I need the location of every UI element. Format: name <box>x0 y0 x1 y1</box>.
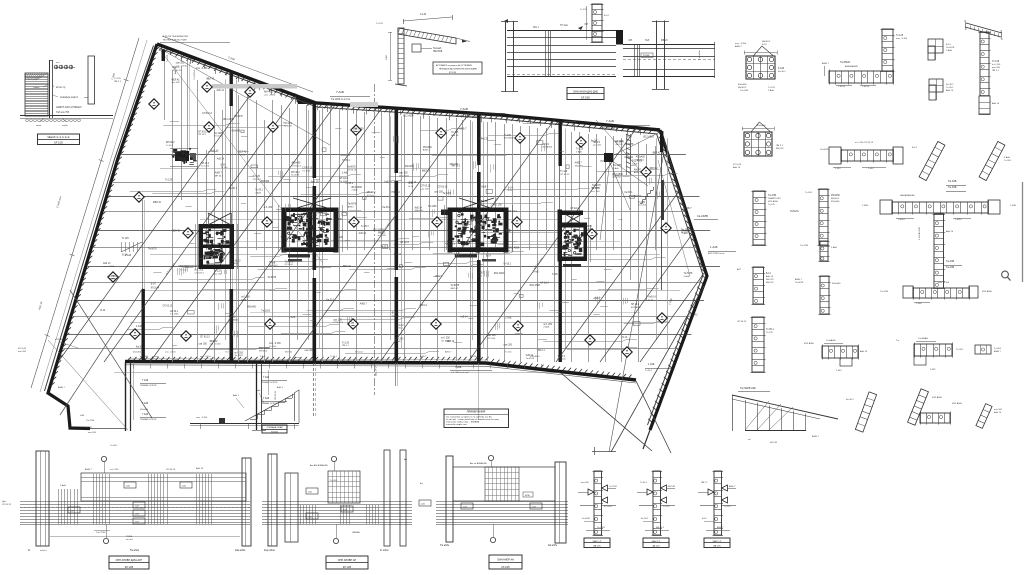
svg-text:Алимфлд освртл: Алимфлд освртл <box>60 96 79 99</box>
svg-text:СП 63.13: СП 63.13 <box>421 186 431 188</box>
svg-text:Кт жб/м: Кт жб/м <box>380 549 389 552</box>
svg-text:АхБ 14: АхБ 14 <box>766 275 774 278</box>
svg-text:1.4Х5: 1.4Х5 <box>930 369 936 371</box>
svg-text:Тм 6078: Тм 6078 <box>946 47 955 49</box>
svg-text:шаг 200: шаг 200 <box>615 141 624 143</box>
small bar R17 <box>820 241 828 261</box>
svg-text:Б-14: Б-14 <box>479 204 484 206</box>
corner detail B note box <box>433 62 482 74</box>
stair core 1 small <box>175 151 189 161</box>
svg-text:Тж 1205: Тж 1205 <box>339 181 348 183</box>
svg-text:Тж 1205: Тж 1205 <box>170 314 179 316</box>
svg-text:Б-14: Б-14 <box>221 164 227 166</box>
svg-text:361 1: 361 1 <box>533 27 539 29</box>
svg-text:Ø12 А500: Ø12 А500 <box>55 338 66 341</box>
svg-text:Тл 05.1: Тл 05.1 <box>269 346 277 348</box>
svg-text:Тл 05.1: Тл 05.1 <box>110 445 118 447</box>
svg-text:Тл 125: Тл 125 <box>280 238 288 240</box>
svg-text:7 АхБ: 7 АхБ <box>460 107 468 111</box>
svg-text:КЛ 2x14: КЛ 2x14 <box>151 288 160 290</box>
plan outline - bottom left closure <box>90 428 126 430</box>
svg-text:ЧВА ⑤-⑥: ЧВА ⑤-⑥ <box>713 540 722 543</box>
vertical grid lines <box>172 70 174 362</box>
svg-text:ТЕЖАНБ ОСЖТЕ: ТЕЖАНБ ОСЖТЕ <box>140 418 157 421</box>
beam detail BD1 right column <box>242 458 251 546</box>
beam detail C tall column <box>656 21 658 90</box>
beam detail BD2 title box <box>326 556 368 569</box>
svg-text:Тж АХБ: Тж АХБ <box>948 180 957 183</box>
svg-text:АхБ 14: АхБ 14 <box>103 262 111 265</box>
basement wall below plan x=126 <box>125 362 127 431</box>
svg-text:Тм 6078: Тм 6078 <box>450 285 459 287</box>
beam detail BD1 stirrups <box>58 489 60 524</box>
svg-text:жб/м××: жб/м×× <box>40 549 48 552</box>
beam detail BD1 circles <box>101 456 106 461</box>
svg-text:АУТОМАТЛ на умелте db-СУТЕЖ: АУТОМАТЛ на умелте db-СУТЕЖАТЕ <box>436 64 473 67</box>
svg-text:АхБ 14: АхБ 14 <box>211 150 219 153</box>
svg-text:1-05: 1-05 <box>135 513 140 515</box>
stair core 4 <box>448 208 453 253</box>
svg-text:Б-14: Б-14 <box>486 256 492 258</box>
svg-text:Б-14: Б-14 <box>508 188 514 190</box>
svg-text:АхБ 3: АхБ 3 <box>277 386 284 389</box>
svg-text:Б-14: Б-14 <box>604 15 609 17</box>
svg-text:АЖБ 7: АЖБ 7 <box>423 149 431 152</box>
svg-text:Тж 1205: Тж 1205 <box>800 245 809 247</box>
svg-text:Тлб ПЛЖ: Тлб ПЛЖ <box>96 532 105 534</box>
svg-text:ЛМ 2.1: ЛМ 2.1 <box>992 70 1000 72</box>
beam detail C left column <box>505 21 507 92</box>
svg-text:Б-14: Б-14 <box>766 273 772 275</box>
rebar bar detail R7 <box>752 317 764 372</box>
svg-text:ФБЛ 42: ФБЛ 42 <box>776 147 784 150</box>
svg-text:СП 63.13: СП 63.13 <box>438 186 448 188</box>
svg-text:МН 40.2: МН 40.2 <box>656 527 665 529</box>
svg-text:Тм 6078: Тм 6078 <box>684 273 693 275</box>
svg-text:1.4X3: 1.4X3 <box>868 168 874 170</box>
svg-text:Тж 1205: Тж 1205 <box>225 352 234 354</box>
beam detail BD2 circles <box>331 456 336 461</box>
svg-text:Тл 125: Тл 125 <box>766 332 774 334</box>
svg-text:ж.б. 200: ж.б. 200 <box>591 191 600 193</box>
svg-text:ЧВА ①-②: ЧВА ①-② <box>593 540 602 543</box>
svg-text:ФБЛ 42: ФБЛ 42 <box>653 152 662 155</box>
svg-text:Тл 125: Тл 125 <box>221 167 229 169</box>
rebar bar detail R5 <box>753 267 764 304</box>
basement wall 2 below plan x=258 <box>256 363 258 430</box>
svg-text:МН 40.2: МН 40.2 <box>470 356 479 358</box>
svg-text:Ø12 А500: Ø12 А500 <box>223 118 234 121</box>
svg-text:ОНН АНОВН АН: ОНН АНОВН АН <box>338 559 357 562</box>
svg-text:7 АхБ: 7 АхБ <box>142 379 149 382</box>
svg-text:КЛ 2x14: КЛ 2x14 <box>540 282 549 284</box>
svg-text:450x450: 450x450 <box>832 283 841 285</box>
svg-text:АА 1/25: АА 1/25 <box>652 545 660 548</box>
svg-text:Ø12 А500: Ø12 А500 <box>952 402 963 405</box>
svg-text:АЖБ 7: АЖБ 7 <box>241 298 249 301</box>
interior wall column x=662 <box>660 131 663 152</box>
svg-text:ж.б. 200: ж.б. 200 <box>992 64 1001 66</box>
svg-text:Ø12 А500: Ø12 А500 <box>932 396 943 399</box>
wall hatch ticks along top edge <box>159 47 162 50</box>
svg-text:Б-14: Б-14 <box>912 147 917 149</box>
svg-text:450x450: 450x450 <box>140 409 149 411</box>
svg-text:Тж ЖБАН: Тж ЖБАН <box>918 337 928 340</box>
svg-text:ФБЛ 42: ФБЛ 42 <box>422 170 431 173</box>
svg-text:Джл: Джл <box>2 501 7 503</box>
svg-text:450x450: 450x450 <box>423 147 433 149</box>
svg-text:шаг 200: шаг 200 <box>558 359 567 361</box>
column section D <box>746 56 775 79</box>
svg-text:Ø12 А500: Ø12 А500 <box>631 306 642 309</box>
svg-text:Ам АЖ АЖАНЖБ: Ам АЖ АЖАНЖБ <box>310 464 328 467</box>
svg-text:1.4ХБ: 1.4ХБ <box>916 303 922 305</box>
svg-text:КЛ 1/25: КЛ 1/25 <box>501 566 510 569</box>
svg-text:МН 40.2: МН 40.2 <box>831 198 840 200</box>
svg-text:Б-14: Б-14 <box>101 310 107 312</box>
svg-text:Тж 1205: Тж 1205 <box>310 212 319 214</box>
centreline dash-dot x=374 <box>374 84 376 395</box>
svg-text:ПЛ 14.2: ПЛ 14.2 <box>631 304 640 306</box>
svg-text:ФБЛ 42: ФБЛ 42 <box>668 485 676 488</box>
beam detail BD3 title box <box>489 555 522 569</box>
svg-text:ТЕЖАНБ ОСЖТЕ: ТЕЖАНБ ОСЖТЕ <box>140 384 157 387</box>
svg-text:Тж жб/м: Тж жб/м <box>440 544 449 547</box>
svg-text:МН 40.2: МН 40.2 <box>367 192 376 194</box>
quad section R9 <box>928 39 943 53</box>
svg-text:АЖБ 7: АЖБ 7 <box>420 355 427 358</box>
svg-text:Б-14: Б-14 <box>477 275 482 277</box>
svg-text:АхБ 14: АхБ 14 <box>217 89 225 92</box>
svg-text:2 АхБ: 2 АхБ <box>337 236 344 239</box>
svg-text:Тл 05.1: Тл 05.1 <box>956 349 964 351</box>
svg-text:отм. -3.150: отм. -3.150 <box>264 94 276 96</box>
svg-text:отм. -3.150: отм. -3.150 <box>103 266 115 268</box>
svg-text:ПЛ 14.2: ПЛ 14.2 <box>601 161 610 163</box>
interior wall column x=479 <box>477 115 481 165</box>
svg-text:ахб/м: ахб/м <box>62 125 68 127</box>
svg-text:2 АхБ: 2 АхБ <box>1004 156 1010 159</box>
interior wall column x=143 lower <box>142 289 145 362</box>
svg-text:Кж 30.1: Кж 30.1 <box>846 399 854 401</box>
svg-text:Кшр жб/м: Кшр жб/м <box>264 549 275 552</box>
svg-text:Тл 05.1: Тл 05.1 <box>342 160 350 162</box>
svg-text:Тл 125: Тл 125 <box>768 87 776 89</box>
svg-text:Тж ОЖЛБ АХЕ: Тж ОЖЛБ АХЕ <box>740 387 756 390</box>
svg-text:шаг 200: шаг 200 <box>305 350 314 352</box>
beam detail C stirrup ticks x=546 <box>545 30 547 76</box>
svg-text:2 АхБ: 2 АхБ <box>289 316 296 319</box>
svg-text:Тл 125: Тл 125 <box>768 204 776 206</box>
svg-text:ЛМ 2.1: ЛМ 2.1 <box>538 350 546 352</box>
svg-text:АЖБ 7: АЖБ 7 <box>685 207 693 210</box>
svg-text:Кж 30.1: Кж 30.1 <box>395 328 403 330</box>
stair steps core2 <box>121 242 123 252</box>
svg-text:Кж 30.1: Кж 30.1 <box>778 71 786 73</box>
svg-text:Б-14: Б-14 <box>946 44 951 46</box>
svg-text:шаг 200: шаг 200 <box>217 243 226 245</box>
wall section A base <box>20 115 113 117</box>
svg-text:Тл 125: Тл 125 <box>451 132 459 134</box>
svg-text:ПЕЖБАТЖ АЬСУМЖТЕЛЕ АЛТЕЖАНЕ: ПЕЖБАТЖ АЬСУМЖТЕЛЕ АЛТЕЖАНЕ <box>439 68 477 71</box>
svg-text:1-05: 1-05 <box>532 506 537 508</box>
svg-text:Тл 05.1: Тл 05.1 <box>645 370 653 372</box>
bottom edge companion lines <box>125 365 486 367</box>
svg-text:ФБЛ 42: ФБЛ 42 <box>210 340 219 343</box>
svg-text:ЗАЖБА: ЗАЖБА <box>352 531 360 534</box>
svg-text:Б-14: Б-14 <box>509 250 514 252</box>
svg-text:ПЛ 14.2: ПЛ 14.2 <box>322 222 331 224</box>
svg-text:Ø12 А500: Ø12 А500 <box>504 137 515 140</box>
svg-text:Ø12 А500: Ø12 А500 <box>403 115 414 118</box>
svg-text:1-05: 1-05 <box>182 485 187 487</box>
svg-text:Тл 05.1: Тл 05.1 <box>330 356 338 358</box>
svg-text:СП 63.13: СП 63.13 <box>163 306 173 308</box>
svg-text:ПЛ 14.2: ПЛ 14.2 <box>253 179 262 181</box>
svg-text:АхБ 14: АхБ 14 <box>992 102 1000 105</box>
svg-text:Тл 05.1: Тл 05.1 <box>285 229 293 231</box>
beam detail BD1 top rect <box>81 473 246 501</box>
svg-text:АхБ 14: АхБ 14 <box>394 253 402 256</box>
svg-text:МН 40.2: МН 40.2 <box>259 351 268 353</box>
svg-text:МН 40.2: МН 40.2 <box>269 265 278 267</box>
svg-text:КЛ 2x14: КЛ 2x14 <box>487 338 496 340</box>
svg-text:ФБЛ 42: ФБЛ 42 <box>770 441 778 444</box>
svg-text:450x450: 450x450 <box>612 177 621 179</box>
svg-text:Тл 05.1: Тл 05.1 <box>558 356 566 358</box>
svg-text:Тм 6078: Тм 6078 <box>291 175 300 177</box>
svg-text:АЖБ 7: АЖБ 7 <box>459 128 467 131</box>
svg-text:450x450: 450x450 <box>636 157 646 159</box>
svg-text:ж.б. 200: ж.б. 200 <box>493 205 502 207</box>
svg-text:МН 40.2: МН 40.2 <box>264 92 273 94</box>
svg-text:ж.б. 200: ж.б. 200 <box>241 297 250 299</box>
svg-text:АЖБ 7: АЖБ 7 <box>360 302 368 305</box>
slanted bar R14 <box>979 141 1005 180</box>
svg-text:Тм 6078: Тм 6078 <box>148 249 157 251</box>
svg-text:Тл 125: Тл 125 <box>376 23 384 25</box>
svg-text:Тл 125: Тл 125 <box>638 202 646 204</box>
svg-text:Кжа жб/м: Кжа жб/м <box>235 549 246 552</box>
svg-text:Тж 1205: Тж 1205 <box>880 291 889 293</box>
plan outline - right edge <box>650 130 707 430</box>
svg-text:Тл 05.1: Тл 05.1 <box>361 226 369 228</box>
svg-text:КЛ 2x14: КЛ 2x14 <box>400 242 409 244</box>
svg-text:Тж АХБ: Тж АХБ <box>948 186 957 189</box>
svg-text:1-05: 1-05 <box>135 505 140 507</box>
svg-text:АхБ 14: АхБ 14 <box>648 296 656 299</box>
svg-text:отм. -3.150: отм. -3.150 <box>165 352 176 354</box>
svg-text:шаг 200: шаг 200 <box>399 173 408 175</box>
svg-text:Тм 6078: Тм 6078 <box>795 282 804 284</box>
svg-text:МЛБ: МЛБ <box>525 495 530 497</box>
svg-text:ПЛ 14.2: ПЛ 14.2 <box>284 123 293 125</box>
svg-text:1.4ХБ: 1.4ХБ <box>862 205 869 207</box>
svg-text:плвж３бма тжelba тжме – ТЕЖ: плвж３бма тжelba тжме – ТЕЖАНА <box>446 421 480 424</box>
interior wall column x=314 <box>313 103 317 178</box>
corner detail B dimension line <box>403 17 452 21</box>
svg-text:ж.б. 200 на вс тжб: ж.б. 200 на вс тжб <box>451 372 469 374</box>
svg-text:1-05: 1-05 <box>343 509 348 511</box>
svg-text:Тм 6078: Тм 6078 <box>234 116 243 118</box>
svg-text:ФБмЛ: ФБмЛ <box>661 39 668 42</box>
svg-text:450x450: 450x450 <box>831 195 841 197</box>
svg-text:АХЛ ТХБЛ на вс: АХЛ ТХБЛ на вс <box>708 252 725 255</box>
svg-text:отм. -3.150: отм. -3.150 <box>896 38 908 40</box>
svg-text:7 АхБ: 7 АхБ <box>606 119 614 123</box>
svg-text:шаг 200: шаг 200 <box>992 67 1001 69</box>
svg-text:Тл 05.1: Тл 05.1 <box>1004 160 1012 162</box>
svg-text:ФБЛ 42: ФБЛ 42 <box>172 78 181 81</box>
svg-text:Тжб осв 765: Тжб осв 765 <box>56 112 70 114</box>
magnifier icon <box>1002 271 1009 278</box>
hatched band x=628 <box>626 134 630 136</box>
svg-text:Тж 1205: Тж 1205 <box>613 165 622 167</box>
svg-text:1400: 1400 <box>386 54 388 60</box>
svg-text:отм. -3.150: отм. -3.150 <box>196 68 208 70</box>
beam detail BD2 main lines <box>262 501 412 503</box>
svg-text:ЛМ 2.1: ЛМ 2.1 <box>172 67 180 69</box>
svg-text:2 АхБ: 2 АхБ <box>125 254 132 257</box>
svg-text:Тж БАНФ: Тж БАНФ <box>826 339 836 342</box>
truss ramp detail R21 <box>732 395 838 419</box>
svg-text:2 АхБ: 2 АхБ <box>946 49 952 52</box>
svg-text:СП 63.13: СП 63.13 <box>275 390 277 400</box>
L wall detail R8 horizontal bar <box>829 71 893 83</box>
svg-text:СП 63.13: СП 63.13 <box>195 272 205 274</box>
svg-text:хАЖАЖАНЖБ: хАЖАЖАНЖБ <box>900 194 915 197</box>
svg-text:ФБЛ 42: ФБЛ 42 <box>206 78 215 81</box>
column section E <box>744 132 772 156</box>
svg-text:1.4X3: 1.4X3 <box>835 168 841 170</box>
wall section A vertical wall <box>49 60 51 118</box>
exterior dimension line left <box>31 38 139 388</box>
svg-text:Тл 125: Тл 125 <box>504 135 512 137</box>
svg-text:шаг 200: шаг 200 <box>421 188 430 190</box>
svg-text:Тл 125: Тл 125 <box>342 342 350 344</box>
svg-text:Тм 6078: Тм 6078 <box>526 358 535 360</box>
svg-text:АЖБ 7: АЖБ 7 <box>348 205 356 208</box>
svg-text:Тл 05.1: Тл 05.1 <box>946 87 954 89</box>
svg-text:Тж 1205: Тж 1205 <box>583 229 592 231</box>
svg-text:КЛ 2x14: КЛ 2x14 <box>625 157 634 159</box>
svg-text:МН 40.2: МН 40.2 <box>682 231 691 233</box>
svg-text:ж.б. 200: ж.б. 200 <box>441 338 450 340</box>
section diamond markers <box>202 82 212 92</box>
detail M2 vertical bar top <box>592 4 602 42</box>
svg-text:зПН: зПН <box>80 415 85 417</box>
svg-text:ЛМ 2.1: ЛМ 2.1 <box>701 482 708 484</box>
svg-text:СП 63.13: СП 63.13 <box>737 321 747 323</box>
svg-text:ПЛ 14.2: ПЛ 14.2 <box>395 325 404 327</box>
svg-text:4 ЖХЛБ ЖХБ: 4 ЖХЛБ ЖХБ <box>919 226 921 240</box>
svg-text:Тл 05.1: Тл 05.1 <box>994 348 1002 350</box>
beam detail BD2 right columns <box>384 450 390 546</box>
svg-text:450x450: 450x450 <box>757 125 766 127</box>
svg-text:Тж 1205: Тж 1205 <box>214 133 223 135</box>
svg-text:СП 63.13: СП 63.13 <box>302 168 312 170</box>
svg-text:ТмТмТм: ТмТмТм <box>790 211 799 213</box>
svg-text:Тл 125: Тл 125 <box>310 215 318 217</box>
svg-text:ж.б. 200 СП 63.13: ж.б. 200 СП 63.13 <box>855 142 874 144</box>
svg-text:Тл 05.1: Тл 05.1 <box>503 264 511 266</box>
svg-text:СП 63.13: СП 63.13 <box>231 260 241 262</box>
stair core 3 <box>282 208 287 253</box>
svg-text:Б-14: Б-14 <box>409 186 414 188</box>
corner detail B small square <box>412 44 421 52</box>
svg-text:ОТЕЖАНА ОЖАМ: ОТЕЖАНА ОЖАМ <box>266 426 282 429</box>
svg-text:МН 40.2: МН 40.2 <box>166 142 175 144</box>
rebar bar detail R4 <box>819 189 828 245</box>
svg-text:Кж 30.1: Кж 30.1 <box>326 300 335 302</box>
svg-text:Кж 30.1: Кж 30.1 <box>229 188 238 190</box>
big T detail R16 vertical bar <box>934 214 944 288</box>
svg-text:ЧЕжАЗ ①-② А ③-④: ЧЕжАЗ ①-② А ③-④ <box>47 135 70 139</box>
svg-text:отм. -3.150: отм. -3.150 <box>938 282 950 284</box>
svg-text:Кж 30.1: Кж 30.1 <box>570 211 578 213</box>
svg-text:ЛМ 2.1: ЛМ 2.1 <box>114 81 122 83</box>
big T detail R16 top bar <box>880 200 892 214</box>
svg-text:АхБ 14: АхБ 14 <box>447 241 455 244</box>
svg-text:отм. -3.150: отм. -3.150 <box>196 417 208 419</box>
svg-text:Кж 30.1: Кж 30.1 <box>625 192 634 194</box>
svg-text:Аம: Аம <box>420 482 423 485</box>
dark block near top right interior <box>604 153 613 162</box>
svg-text:шаг 200: шаг 200 <box>504 344 513 346</box>
svg-text:шаг 200: шаг 200 <box>172 82 181 84</box>
beam detail BD1 label boxes <box>124 482 136 488</box>
svg-text:ж.б. 200: ж.б. 200 <box>234 353 243 355</box>
svg-text:2 АхБ: 2 АхБ <box>684 275 690 278</box>
slanted bar R22 <box>855 392 876 432</box>
svg-text:Тмб: Тмб <box>645 40 650 42</box>
svg-text:ЛМ 2.1: ЛМ 2.1 <box>776 145 784 147</box>
svg-text:ФБЛ 42: ФБЛ 42 <box>238 151 247 154</box>
svg-text:Тл 125: Тл 125 <box>214 271 222 273</box>
svg-text:450x450: 450x450 <box>415 210 424 212</box>
svg-text:шаг 200: шаг 200 <box>206 243 215 245</box>
svg-text:АхБ 14: АхБ 14 <box>460 316 468 319</box>
svg-text:НБ ПЕЖ А НБ ВС ПЛАН: НБ ПЕЖ А НБ ВС ПЛАН <box>163 39 187 42</box>
svg-text:Тл 125: Тл 125 <box>165 180 173 182</box>
svg-text:АЖБУЛ АЖЛ АЛТЕМАЛ: АЖБУЛ АЖЛ АЛТЕМАЛ <box>56 106 82 109</box>
svg-text:Тж 1205: Тж 1205 <box>261 310 270 312</box>
svg-text:жб тжб: жб тжб <box>126 539 134 541</box>
svg-text:Са АХЛБ: Са АХЛБ <box>697 214 708 218</box>
svg-text:Тл 05.1: Тл 05.1 <box>766 329 774 331</box>
svg-text:АхБ 14: АхБ 14 <box>994 411 1002 414</box>
svg-text:ОНН АНОР АН: ОНН АНОР АН <box>497 559 514 562</box>
notched bar R19 <box>914 344 952 356</box>
svg-text:Ø12 А500: Ø12 А500 <box>82 426 93 429</box>
svg-text:1-05: 1-05 <box>308 491 313 493</box>
svg-text:отм. -3.150: отм. -3.150 <box>210 344 222 346</box>
extra diagonals lower-left X brace <box>70 290 152 418</box>
svg-text:КЛ 1/25: КЛ 1/25 <box>54 142 63 145</box>
svg-text:КЛ 2x14: КЛ 2x14 <box>367 195 376 197</box>
quad section R10 <box>929 79 943 92</box>
beam detail BD3 circles <box>488 455 493 460</box>
svg-text:СП 63.13: СП 63.13 <box>560 174 570 176</box>
svg-text:АхБ 1: АхБ 1 <box>233 394 240 397</box>
svg-text:ЧВА ③-④: ЧВА ③-④ <box>652 540 661 543</box>
svg-text:АхБ 14: АхБ 14 <box>415 206 423 209</box>
svg-text:Тм 6078: Тм 6078 <box>583 226 592 228</box>
svg-text:КЛ 2x14: КЛ 2x14 <box>570 208 579 210</box>
svg-text:Тм жб/м: Тм жб/м <box>130 549 139 552</box>
inner face lines of outline <box>161 49 318 108</box>
svg-text:МН 40.2: МН 40.2 <box>636 159 645 161</box>
